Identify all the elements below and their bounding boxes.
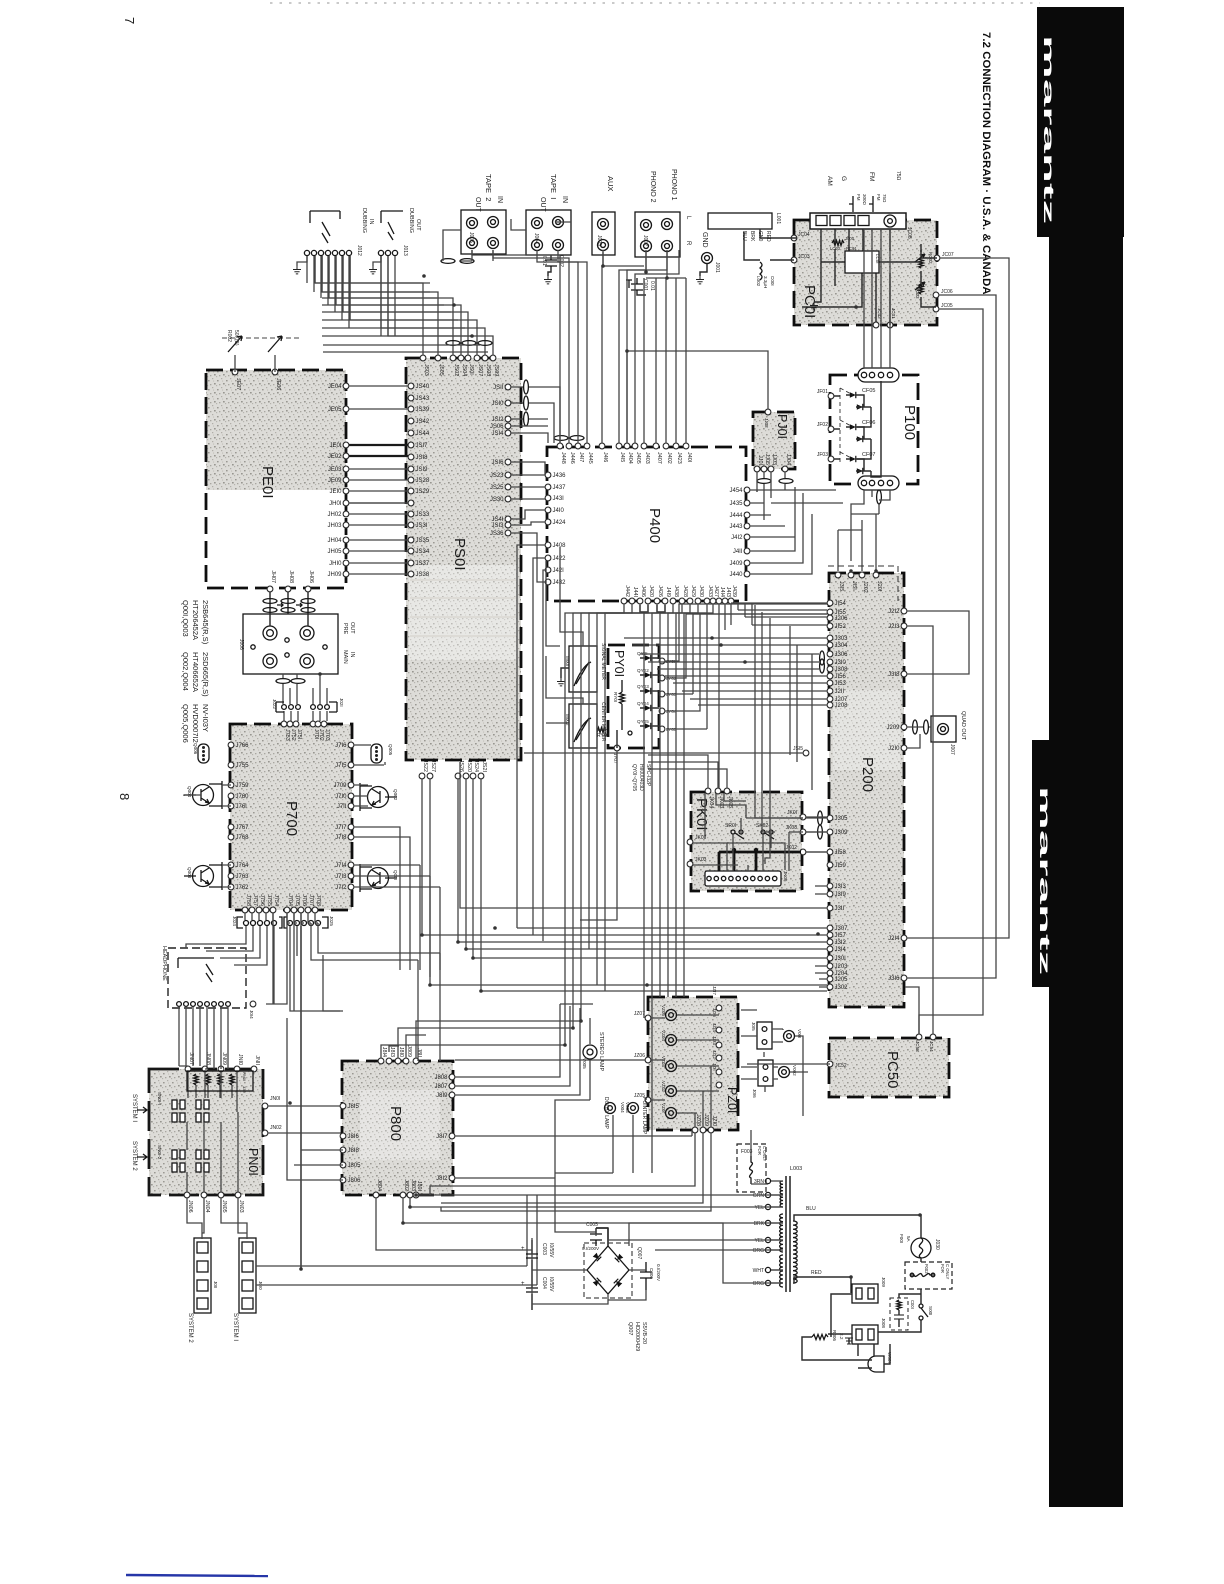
svg-text:C00I: C00I	[770, 276, 775, 286]
svg-text:SPC-I32P: SPC-I32P	[645, 764, 651, 787]
PS01 top pins	[420, 355, 499, 376]
svg-text:JS42: JS42	[416, 419, 430, 425]
node J7I7	[348, 824, 354, 830]
svg-text:AUX: AUX	[606, 176, 615, 191]
filter CF07	[846, 452, 875, 474]
node J438	[670, 598, 676, 604]
svg-text:S5VB-20: S5VB-20	[641, 1322, 647, 1344]
wire	[573, 604, 632, 1028]
node J7I0	[348, 793, 354, 799]
wire	[675, 278, 677, 443]
svg-text:FOR: FOR	[757, 1146, 762, 1155]
node JZ08	[692, 1127, 698, 1133]
node J8I5	[340, 1103, 346, 1109]
node tap ORG	[765, 1280, 770, 1285]
svg-text:LC0I: LC0I	[875, 254, 880, 264]
block PN01	[149, 1069, 263, 1195]
PS01 right pins	[490, 384, 511, 537]
svg-text:DUBBING: DUBBING	[361, 208, 367, 233]
svg-text:JK08: JK08	[786, 825, 798, 831]
nodes JN01 JN02	[262, 1096, 282, 1136]
svg-text:M00I: M00I	[565, 656, 570, 666]
svg-text:JS30: JS30	[490, 497, 504, 503]
wires PN01 to terminals	[187, 1198, 247, 1239]
svg-text:JI52: JI52	[835, 624, 847, 630]
node tap YEL	[765, 1237, 770, 1242]
svg-text:J3I0: J3I0	[835, 660, 847, 666]
wire JE-JS 480	[349, 479, 408, 481]
node JK05	[724, 788, 730, 794]
svg-text:J438: J438	[673, 585, 679, 597]
svg-text:JJ0I: JJ0I	[757, 455, 763, 465]
DUBBING OUT jack J013	[369, 208, 421, 274]
wire	[335, 256, 337, 283]
svg-text:J752: J752	[290, 729, 296, 741]
node JZI0	[708, 1127, 714, 1133]
P400 top pins	[557, 443, 692, 464]
node JJ04	[782, 466, 788, 472]
node JS2I	[478, 773, 484, 779]
node JH07	[267, 586, 273, 592]
svg-text:J309: J309	[835, 830, 849, 836]
node tap BRK	[765, 1220, 770, 1225]
svg-text:JS44: JS44	[416, 431, 430, 437]
node J445	[584, 443, 590, 449]
block P400	[547, 447, 746, 601]
lamp V002	[779, 1065, 798, 1078]
connector J008	[852, 1318, 886, 1344]
svg-text:P800: P800	[387, 1106, 404, 1141]
switch SR01	[725, 823, 744, 839]
U links on P400 bottom pins	[640, 605, 665, 612]
wire JY07 down	[580, 751, 617, 920]
svg-text:J2I0: J2I0	[888, 746, 900, 752]
svg-text:IN: IN	[349, 652, 355, 658]
node J44I	[629, 598, 635, 604]
svg-text:0.I/200V: 0.I/200V	[582, 1246, 600, 1251]
transistor table text	[181, 600, 210, 743]
block P700	[230, 724, 352, 910]
node J767	[228, 824, 234, 830]
svg-text:J307: J307	[835, 926, 849, 932]
transistor Q002	[360, 783, 398, 811]
node JS24	[470, 773, 476, 779]
PJ01 bottom pins	[754, 454, 791, 472]
svg-text:J030: J030	[934, 1239, 940, 1250]
node JH09	[343, 571, 349, 577]
node J4I6	[599, 443, 605, 449]
node J755	[263, 907, 269, 913]
svg-text:J006: J006	[238, 639, 244, 650]
node JS08	[482, 355, 488, 361]
svg-text:PHONO 1: PHONO 1	[670, 169, 677, 201]
wire J025 heavy drop	[300, 926, 302, 1269]
wire	[493, 250, 569, 443]
svg-text:J8I3: J8I3	[389, 1047, 395, 1057]
coil LC01 box (redrawn on top)	[845, 251, 880, 273]
svg-text:J0I6: J0I6	[752, 1089, 757, 1098]
svg-text:J768: J768	[236, 835, 250, 841]
node JS37	[408, 560, 414, 566]
svg-text:V005: V005	[582, 1058, 587, 1069]
wire	[581, 604, 640, 1021]
svg-text:FM: FM	[868, 172, 875, 181]
wire JE-JS 563	[349, 562, 408, 564]
svg-text:J7I3: J7I3	[335, 874, 347, 880]
svg-text:OUT: OUT	[539, 197, 546, 213]
svg-text:S00I: S00I	[928, 1306, 933, 1315]
svg-text:GRN: GRN	[753, 1193, 765, 1199]
svg-text:J007: J007	[949, 744, 955, 755]
svg-text:QY05: QY05	[637, 719, 649, 724]
svg-text:PHONO 2: PHONO 2	[649, 171, 656, 203]
node J4I4	[716, 598, 722, 604]
svg-text:J202: J202	[862, 581, 868, 593]
node JH04	[343, 537, 349, 543]
wire	[627, 250, 667, 443]
svg-text:J409: J409	[729, 561, 743, 567]
node J204	[827, 970, 833, 976]
node JS36	[505, 530, 511, 536]
wire PS01 bottom drops	[422, 779, 481, 991]
node JZI2	[716, 1069, 722, 1075]
svg-text:R006: R006	[832, 1330, 837, 1341]
svg-text:J306: J306	[835, 652, 849, 658]
svg-text:JK04: JK04	[708, 796, 714, 808]
svg-text:JZI6: JZI6	[712, 1008, 717, 1017]
node JS44	[408, 430, 414, 436]
diode QY04	[637, 701, 677, 714]
node J754	[270, 907, 276, 913]
svg-text:J4II: J4II	[733, 549, 743, 555]
svg-text:HVD0007I2: HVD0007I2	[191, 704, 200, 743]
node JH03	[343, 522, 349, 528]
wire PC50 feeds	[747, 1063, 830, 1065]
P400 bottom pins	[621, 585, 737, 604]
svg-text:QY03: QY03	[637, 684, 649, 689]
svg-text:JZI2: JZI2	[712, 1050, 717, 1059]
wire	[863, 229, 865, 368]
node JI58	[827, 849, 833, 855]
node J428	[679, 598, 685, 604]
svg-text:JNII: JNII	[254, 1055, 260, 1065]
node JS34	[408, 548, 414, 554]
node J4I0	[545, 507, 551, 513]
node JJ03	[768, 466, 774, 472]
svg-text:JN0I: JN0I	[270, 1096, 280, 1102]
wire	[381, 256, 485, 355]
node JS02	[450, 355, 456, 361]
node J70I	[310, 721, 316, 727]
node J4I7	[575, 443, 581, 449]
P100 internal dashes	[840, 388, 853, 464]
svg-text:J424: J424	[553, 520, 567, 526]
svg-text:J3I3: J3I3	[835, 884, 847, 890]
P700 bottom pins	[242, 894, 321, 913]
svg-text:J754: J754	[273, 894, 279, 906]
node JJ05	[761, 466, 767, 472]
svg-text:J703: J703	[324, 729, 330, 741]
svg-text:J022: J022	[272, 699, 277, 709]
node JZI3	[716, 1055, 722, 1061]
GND jack J001	[696, 232, 720, 284]
resistor RN04	[230, 1074, 234, 1085]
node J8I0	[395, 1058, 401, 1064]
node J3I9	[827, 891, 833, 897]
svg-text:J803: J803	[410, 1179, 416, 1191]
svg-text:JNI0: JNI0	[237, 1054, 243, 1065]
terminal strip L001	[708, 213, 781, 242]
svg-text:IN: IN	[561, 196, 568, 203]
svg-text:SR0I: SR0I	[725, 823, 736, 829]
node J429	[687, 598, 693, 604]
svg-text:JSI6: JSI6	[491, 460, 504, 466]
svg-text:J402: J402	[666, 452, 672, 464]
fuse holder F001/J030	[899, 1234, 940, 1258]
wire	[619, 250, 646, 443]
node J409	[744, 560, 750, 566]
svg-text:JC06: JC06	[941, 289, 953, 295]
node J756	[256, 907, 262, 913]
node J704	[284, 907, 290, 913]
svg-text:JSII: JSII	[493, 385, 504, 391]
svg-text:J705: J705	[294, 894, 300, 906]
diode QY0I	[637, 651, 675, 664]
svg-text:FOR: FOR	[940, 1264, 945, 1273]
svg-text:J2I4: J2I4	[888, 936, 900, 942]
wire JE-JS 445	[349, 444, 408, 446]
node JH02	[343, 511, 349, 517]
svg-text:JC03: JC03	[798, 254, 810, 260]
lamp VZ04	[661, 1030, 677, 1046]
svg-text:JI57: JI57	[835, 933, 847, 939]
block PY01	[608, 645, 659, 748]
labels SYSTEM 1 / SYSTEM 2	[131, 1094, 147, 1171]
svg-text:J403: J403	[644, 452, 650, 464]
svg-text:RED: RED	[811, 1270, 822, 1276]
lamp VZ02	[661, 1081, 677, 1097]
node J440	[744, 571, 750, 577]
svg-text:J8I7: J8I7	[436, 1134, 448, 1140]
text Q007 part numbers	[627, 1322, 647, 1351]
svg-text:JH09: JH09	[327, 572, 342, 578]
svg-text:Q005: Q005	[388, 744, 393, 756]
node JEI0	[343, 488, 349, 494]
PK01 left pins	[687, 835, 707, 867]
node J303	[827, 635, 833, 641]
svg-text:J024: J024	[232, 916, 237, 926]
wire long horizontals into P200 lower pins	[422, 928, 827, 991]
svg-text:J7I6: J7I6	[335, 743, 347, 749]
svg-text:JC05: JC05	[941, 303, 953, 309]
connector J021	[311, 698, 344, 712]
P200 right pins	[886, 608, 906, 982]
svg-text:HT406652A: HT406652A	[191, 652, 200, 692]
svg-text:7.2 CONNECTION DIAGRAM · U.S.: 7.2 CONNECTION DIAGRAM · U.S.A. & CANADA	[980, 32, 992, 295]
ovals below PJ01	[757, 479, 771, 484]
svg-text:+: +	[521, 1281, 525, 1287]
jack panel TAPE 1 J004	[526, 210, 571, 255]
node J2I4	[901, 935, 907, 941]
connector J015	[751, 1022, 772, 1049]
svg-text:J4I6: J4I6	[602, 452, 608, 462]
wire PZ01 bottom to transformer area	[430, 1133, 711, 1211]
svg-text:J40I: J40I	[686, 452, 692, 462]
svg-text:J433: J433	[707, 585, 713, 597]
QUAD OUT jack J007	[907, 711, 966, 755]
node J764	[228, 862, 234, 868]
relay contacts SN01-1	[157, 1092, 209, 1122]
svg-text:J706: J706	[301, 894, 307, 906]
svg-text:JN03: JN03	[238, 1200, 244, 1213]
P200 top pins	[835, 572, 882, 593]
wire	[322, 256, 438, 355]
node JS04	[458, 355, 464, 361]
node J752	[287, 721, 293, 727]
svg-text:J804: J804	[376, 1179, 382, 1191]
wire	[597, 604, 657, 985]
svg-text:J445: J445	[587, 452, 593, 464]
svg-text:V003: V003	[625, 1102, 630, 1113]
svg-text:J4I7: J4I7	[578, 452, 584, 462]
capacitor C001 0.01 (phono)	[626, 278, 655, 295]
block P200	[829, 573, 904, 1007]
svg-text:JS27: JS27	[430, 760, 436, 772]
svg-text:VZ0I: VZ0I	[661, 1103, 666, 1113]
node J755	[228, 762, 234, 768]
node JI53	[827, 680, 833, 686]
svg-text:JSI4: JSI4	[491, 431, 504, 437]
node J209	[901, 724, 907, 730]
node JS33	[408, 511, 414, 517]
svg-text:J422: J422	[553, 556, 567, 562]
wire P800 right side runs	[455, 1004, 692, 1178]
wire	[336, 256, 461, 355]
svg-text:PK0I: PK0I	[693, 798, 710, 831]
svg-text:PRE: PRE	[342, 623, 348, 635]
jack panel TAPE 2 J005	[461, 210, 506, 254]
svg-text:JI59: JI59	[835, 863, 847, 869]
svg-text:J806: J806	[348, 1178, 362, 1184]
svg-text:JC08: JC08	[906, 227, 912, 239]
svg-text:J004: J004	[533, 233, 539, 244]
P700 top pins	[281, 721, 330, 741]
svg-text:TAPE 2: TAPE 2	[484, 174, 493, 201]
svg-text:JE02: JE02	[328, 454, 342, 460]
P700 right pins	[333, 742, 353, 891]
wire	[589, 604, 648, 949]
node J8I2	[449, 1175, 455, 1181]
junction dots	[422, 274, 426, 278]
svg-text:J4I2: J4I2	[731, 535, 743, 541]
svg-text:Q006: Q006	[193, 743, 198, 755]
svg-text:J012: J012	[356, 245, 362, 256]
resistor RY02	[594, 728, 632, 740]
block PK01	[691, 792, 802, 891]
svg-text:P200: P200	[859, 757, 876, 792]
svg-text:PS0I: PS0I	[451, 538, 468, 571]
node J76I	[228, 803, 234, 809]
svg-text:J008: J008	[881, 1318, 886, 1328]
svg-text:J3I6: J3I6	[888, 976, 900, 982]
block PZ01	[648, 997, 739, 1130]
node J408	[545, 542, 551, 548]
svg-text:WHT: WHT	[753, 1268, 764, 1274]
svg-text:FM: FM	[876, 194, 881, 201]
svg-text:JZ09: JZ09	[703, 1114, 709, 1126]
node J7II	[348, 803, 354, 809]
node J762	[228, 884, 234, 890]
connector Q006	[193, 743, 209, 763]
node J8I6	[340, 1133, 346, 1139]
lamp VZ0I	[661, 1103, 677, 1119]
node JS07	[474, 355, 480, 361]
svg-text:JC58: JC58	[915, 1041, 920, 1052]
svg-text:J404: J404	[627, 452, 633, 464]
svg-text:JZ06: JZ06	[634, 1053, 645, 1059]
svg-text:J44I: J44I	[632, 587, 638, 597]
svg-text:J8I0: J8I0	[398, 1047, 404, 1057]
svg-text:C ONLY: C ONLY	[945, 1264, 950, 1279]
svg-text:J426: J426	[657, 585, 663, 597]
PK01 right pins	[786, 810, 806, 855]
svg-text:I0/55V: I0/55V	[548, 1243, 554, 1258]
svg-text:HEADPHONE: HEADPHONE	[161, 946, 167, 981]
wire JE-JS 469	[349, 468, 408, 470]
node J404	[624, 443, 630, 449]
mains wiring	[920, 1258, 922, 1326]
diode QY02	[637, 668, 677, 681]
wire PJ01 JJ02 up	[627, 351, 768, 443]
switch S001	[919, 1304, 933, 1320]
svg-text:J762: J762	[236, 885, 250, 891]
connector bottom of P100	[858, 476, 899, 490]
svg-text:DUBBING: DUBBING	[408, 208, 414, 233]
jack box J006 PRE OUT / MAIN IN	[238, 614, 355, 674]
node J8II	[413, 1058, 419, 1064]
filter CF05	[846, 388, 875, 410]
PS01 left pins	[408, 383, 430, 578]
svg-text:J802: J802	[403, 1179, 409, 1191]
node J760	[228, 793, 234, 799]
svg-text:CF07: CF07	[862, 452, 875, 458]
svg-text:J3II: J3II	[835, 906, 845, 912]
svg-text:J7I0: J7I0	[335, 794, 347, 800]
svg-text:P100: P100	[901, 405, 918, 440]
svg-text:JS43: JS43	[416, 396, 430, 402]
svg-text:Q007: Q007	[636, 1247, 642, 1259]
node J208	[827, 702, 833, 708]
node JH0I	[343, 500, 349, 506]
svg-text:JE06: JE06	[275, 378, 281, 390]
svg-text:J704: J704	[287, 894, 293, 906]
PJ01 top pin JJ02	[764, 409, 771, 428]
node JN08	[202, 1066, 208, 1072]
wire	[342, 256, 344, 283]
node JI54	[827, 600, 833, 606]
node J403	[641, 443, 647, 449]
svg-text:JH07: JH07	[270, 570, 276, 583]
svg-text:J208: J208	[835, 703, 849, 709]
resistor RC03	[915, 282, 925, 299]
svg-text:J0II: J0II	[213, 1281, 218, 1288]
svg-text:Q003: Q003	[187, 867, 192, 879]
label TAPE 1	[539, 174, 568, 213]
node JN09	[218, 1066, 224, 1072]
svg-text:J003: J003	[596, 235, 602, 246]
node J766	[228, 742, 234, 748]
svg-text:J4I4: J4I4	[719, 587, 725, 597]
